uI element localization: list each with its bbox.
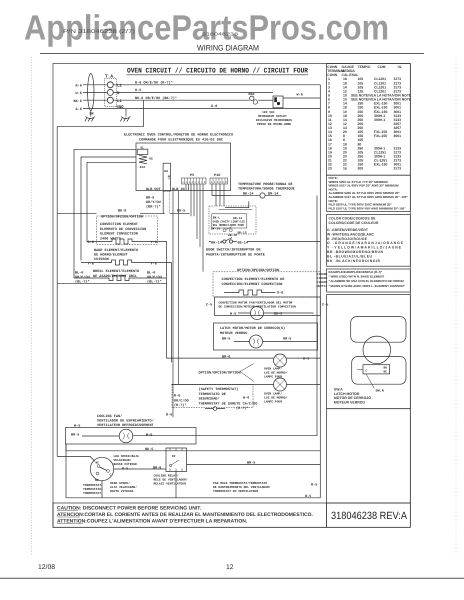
door switch lever [225, 238, 232, 241]
svg-text:ATTENTION:COUPEZ L'ALIMENTATIO: ATTENTION:COUPEZ L'ALIMENTATION AVANT D'… [57, 519, 248, 525]
connector P5 [182, 178, 207, 184]
svg-text:OVEN CAVITY LIGHT/LUZ: OVEN CAVITY LIGHT/LUZ [213, 219, 245, 223]
wire BK-5 run [66, 444, 320, 451]
relay pins [170, 448, 182, 472]
temp probe wire [225, 196, 281, 208]
svg-text:NC: NC [384, 370, 388, 373]
svg-text:ELEMENT CONVECTION: ELEMENT CONVECTION [100, 232, 138, 237]
door switch contacts [223, 240, 226, 243]
svg-text:158150FXL-1503001: 158150FXL-1503001 [328, 134, 401, 138]
svg-text:EXAMPLE/EJEMPLO/EXEMPLE (R-7)*: EXAMPLE/EJEMPLO/EXEMPLE (R-7)* [329, 270, 384, 274]
svg-text:(SAFETY THERMOSTAT): (SAFETY THERMOSTAT) [199, 387, 239, 392]
supply cable ellipse [88, 74, 94, 111]
footer rule [0, 577, 464, 579]
bottom bus wire [66, 472, 320, 498]
svg-text:DOOR SWITCH/INTERRUPTOR DE: DOOR SWITCH/INTERRUPTOR DE [206, 248, 261, 253]
chassis ground right [120, 117, 130, 122]
spare box [327, 409, 411, 503]
wire N feed [83, 91, 107, 93]
svg-text:MOTEUR VERROU: MOTEUR VERROU [334, 400, 366, 404]
svg-text:FAN HOLD THERMOSTAT/TERMOSTATO: FAN HOLD THERMOSTAT/TERMOSTATO [213, 481, 267, 485]
svg-text:BR-6: BR-6 [222, 355, 230, 360]
outlet contact dot [277, 102, 280, 105]
terminal L1 [107, 97, 113, 103]
latch motor M2 [250, 335, 263, 348]
color code text [327, 217, 404, 263]
svg-text:LUZ DE HORNO/: LUZ DE HORNO/ [264, 371, 288, 375]
svg-text:BK-8: BK-8 [118, 209, 126, 214]
element EL box [137, 149, 148, 154]
svg-text:KE: KE [149, 157, 153, 160]
svg-text:ELEMENTO DE CONVECCION: ELEMENTO DE CONVECCION [100, 227, 146, 232]
svg-text:1810250300H-13133: 1810250300H-13133 [328, 146, 401, 150]
svg-text:O-6: O-6 [277, 291, 283, 296]
svg-text:W-5: W-5 [146, 433, 152, 438]
svg-text:Y-6: Y-6 [151, 240, 157, 245]
svg-text:CUISSON: CUISSON [94, 257, 109, 262]
wire bus to thermostat [57, 456, 94, 461]
svg-text:ELECTRONIC OVEN CONTROL/MONITO: ELECTRONIC OVEN CONTROL/MONITOR DE HORNO… [124, 133, 233, 138]
svg-text:1420105FXL-1503001: 1420105FXL-1503001 [328, 130, 401, 134]
svg-text:P/N 318046238 (2/7): P/N 318046238 (2/7) [63, 29, 135, 35]
svg-text:COLORS/CODE DE COULEUR: COLORS/CODE DE COULEUR [329, 221, 380, 225]
switch feed line [357, 368, 363, 370]
svg-text:1114250300H-13133: 1114250300H-13133 [328, 118, 401, 122]
caution box [53, 503, 327, 527]
svg-text:BASSE VITESSE: BASSE VITESSE [114, 463, 138, 466]
terminal L2 [107, 82, 113, 88]
oven circuit title underline [127, 74, 308, 76]
svg-text:318046238 REV:A: 318046238 REV:A [331, 510, 407, 522]
svg-text:OR/E/OU: OR/E/OU [75, 275, 90, 280]
svg-text:BK: BK [90, 112, 95, 117]
convection fan heater [224, 290, 276, 295]
cooling fan motor M3 [119, 429, 133, 443]
wire KA down [162, 191, 164, 213]
cooling relay box KC [166, 448, 187, 472]
svg-text:BK-5: BK-5 [274, 312, 282, 317]
svg-text:* MAINS UTILISE AVEC VERS L. E: * MAINS UTILISE AVEC VERS L. ELEMENT CUI… [329, 284, 406, 288]
svg-text:318046238: 318046238 [202, 32, 239, 37]
svg-text:W-6: W-6 [76, 91, 82, 96]
svg-text:DE HORNO/ELEMENT: DE HORNO/ELEMENT [94, 252, 128, 257]
conv motor wires [238, 312, 314, 314]
svg-text:THERMOSTAT DE SURETE CA/C/OO: THERMOSTAT DE SURETE CA/C/OO [199, 401, 258, 406]
svg-text:WATTS*: WATTS* [317, 284, 328, 288]
svg-text:BR-6: BR-6 [153, 466, 161, 471]
element return bus [157, 242, 171, 363]
svg-text:PRISE DE MICRO-ONDE: PRISE DE MICRO-ONDE [257, 123, 291, 126]
latch motor detail box [327, 295, 411, 409]
convection element option dashed box [97, 216, 158, 245]
svg-text:714150EXL-1503001: 714150EXL-1503001 [328, 102, 401, 106]
svg-text:WIRING DIAGRAM: WIRING DIAGRAM [197, 44, 259, 53]
svg-text:R-6: R-6 [174, 394, 180, 399]
svg-text:BL -BLUE/AZUL/BLEU: BL -BLUE/AZUL/BLEU [327, 254, 373, 258]
svg-text:(BR-7)*: (BR-7)* [146, 205, 161, 210]
svg-text:BK-14: BK-14 [211, 228, 220, 231]
svg-text:BR -BROWN/MORENO/BRUN: BR -BROWN/MORENO/BRUN [327, 250, 384, 254]
thermostat circle Q1 [90, 457, 113, 480]
svg-text:VENTILADOR DE ENFRIAMIENTO/: VENTILADOR DE ENFRIAMIENTO/ [97, 419, 154, 424]
wire BK-8 branch from L1 [57, 100, 143, 213]
svg-text:KA: KA [164, 170, 168, 173]
svg-text:BR-5: BR-5 [71, 433, 79, 438]
svg-text:BAKE ELEMENT/ELEMENTO: BAKE ELEMENT/ELEMENTO [94, 248, 138, 253]
svg-text:R-6: R-6 [76, 83, 82, 88]
lamp wire top [167, 357, 321, 359]
svg-text:2020250300H-13133: 2020250300H-13133 [328, 155, 401, 159]
convection fan option dashed box [213, 272, 320, 297]
svg-text:BK-14: BK-14 [243, 192, 254, 197]
wire R-6 run [113, 84, 320, 86]
convection element heater [97, 239, 158, 244]
svg-text:DE MANTENIMIENTO DEL VENTILADO: DE MANTENIMIENTO DEL VENTILADOR/ [213, 485, 271, 489]
latch cam lower [352, 357, 406, 385]
thermostat lever [100, 467, 108, 471]
svg-text:C: C [110, 474, 112, 477]
svg-text:LOW SPEED/BAJA: LOW SPEED/BAJA [114, 454, 139, 458]
svg-text:OPTION/OPCION/OPTION: OPTION/OPCION/OPTION [237, 268, 279, 273]
svg-text:LATCH MOTOR/MOTOR DE CERROJO(S: LATCH MOTOR/MOTOR DE CERROJO(S) [220, 326, 285, 331]
EOC control box U1 [136, 143, 231, 191]
svg-text:(R-7)*: (R-7)* [236, 406, 249, 411]
svg-text:R-5: R-5 [311, 483, 317, 488]
safety thermostat symbol [205, 408, 225, 410]
svg-text:EXCLUSIVO MICROONDAS: EXCLUSIVO MICROONDAS [256, 119, 292, 122]
svg-text:OPTION/OPCION/OPTION: OPTION/OPCION/OPTION [199, 371, 241, 376]
notes text [329, 176, 409, 210]
wire BK-8 to elements [57, 212, 189, 214]
svg-text:BK-5: BK-5 [145, 447, 153, 452]
page right faint border [455, 57, 457, 555]
oven light outer dashed box [209, 206, 256, 234]
cooling fan box [66, 428, 197, 445]
svg-text:BR-6: BR-6 [146, 196, 154, 201]
EOC left wire 1 [74, 149, 136, 278]
svg-text:TERMOSTATO DE: TERMOSTATO DE [199, 392, 226, 397]
svg-text:OVEN CIRCUIT // CIRCUITO DE HO: OVEN CIRCUIT // CIRCUITO DE HORNO // CIR… [127, 66, 309, 75]
svg-text:R-6 OR/E/OU (R-7)*: R-6 OR/E/OU (R-7)* [135, 80, 173, 85]
svg-text:OVEN LAMP/: OVEN LAMP/ [264, 367, 282, 371]
door switch wire [209, 241, 320, 243]
lamp2 wires [171, 384, 320, 386]
svg-text:WIRES 5107 UL 600V FEP 20" AWG: WIRES 5107 UL 600V FEP 20" AWG 20" MINIM… [329, 184, 399, 188]
latch cam upper [351, 317, 406, 343]
svg-text:Y-6: Y-6 [88, 262, 94, 267]
svg-text:OVEN LAMP/: OVEN LAMP/ [264, 392, 282, 396]
temp probe sensor [260, 193, 265, 198]
relay KA box [163, 163, 170, 191]
P5 harness wires down [186, 184, 203, 272]
svg-text:ALAMBRE 5107 UL STYLE 600V AWG: ALAMBRE 5107 UL STYLE 600V AWG MINIMO 20… [329, 195, 409, 199]
broil element heater [74, 276, 157, 281]
svg-text:COMMANDE FOUR ELECTRONIQUE ES: COMMANDE FOUR ELECTRONIQUE ES 410/02 DOC [139, 138, 223, 143]
svg-text:13142503257: 13142503257 [328, 126, 401, 130]
header rule [40, 53, 424, 55]
wire light feed [219, 209, 253, 211]
relay KA arrow [168, 175, 170, 179]
svg-text:PUERTA/INTERRUPTEUR DE PORTE: PUERTA/INTERRUPTEUR DE PORTE [206, 252, 265, 257]
svg-text:MICROWAVE OUTLET: MICROWAVE OUTLET [258, 115, 287, 118]
caution text [57, 506, 314, 525]
svg-text:SEGURIDAD/: SEGURIDAD/ [199, 397, 220, 402]
svg-text:BK-15: BK-15 [238, 232, 247, 235]
svg-text:TERMOSTATO/: TERMOSTATO/ [83, 487, 103, 491]
svg-text:L2: L2 [117, 84, 122, 89]
svg-text:G -GREEN/VERDE/VERT: G -GREEN/VERDE/VERT [327, 228, 369, 232]
svg-text:118105CL12013173: 118105CL12013173 [328, 77, 401, 81]
svg-text:W -WHITE/BLANCO(BLANC: W -WHITE/BLANCO(BLANC [327, 232, 375, 236]
svg-text:BK-L: BK-L [213, 217, 220, 220]
svg-text:BK-6 OR/E/OU (BK-7)*: BK-6 OR/E/OU (BK-7)* [135, 96, 177, 101]
svg-text:DLB OUT: DLB OUT [146, 187, 161, 192]
svg-text:K1A: K1A [140, 166, 146, 169]
svg-text:2400 WATTS: 2400 WATTS [100, 236, 121, 241]
svg-text:BROIL ELEMENT/ELEMENTO: BROIL ELEMENT/ELEMENTO [93, 269, 139, 274]
wire GND feed [83, 108, 320, 110]
svg-text:CONVECCION/ELEMENT CONVECTION: CONVECCION/ELEMENT CONVECTION [222, 282, 283, 287]
svg-text:P5: P5 [190, 173, 194, 178]
svg-text:G-6: G-6 [211, 104, 217, 109]
svg-text:C1300X: C1300X [317, 281, 328, 284]
svg-text:CONVECTION ELEMENT: CONVECTION ELEMENT [100, 222, 138, 227]
svg-text:FILS 5107 UL TYPE 600V FEP AWG: FILS 5107 UL TYPE 600V FEP AWG MINIMUM 2… [329, 206, 407, 210]
svg-text:23162003173: 23162003173 [328, 167, 401, 171]
wire outlet to bus W-6 [283, 97, 320, 99]
svg-text:LAMPE FOUR: LAMPE FOUR [264, 401, 282, 404]
safety option dashed box [172, 384, 253, 407]
svg-text:BL-6: BL-6 [147, 271, 155, 276]
svg-text:N: N [117, 91, 120, 96]
svg-text:R-6: R-6 [166, 413, 172, 418]
svg-text:C: C [366, 369, 368, 372]
wire L1 run [113, 99, 249, 101]
svg-text:VELOCIDAD/: VELOCIDAD/ [114, 458, 132, 462]
wire L1 to outlet [258, 99, 273, 101]
option pointer lines [240, 364, 254, 382]
svg-text:MOTEUR VERROU: MOTEUR VERROU [220, 331, 247, 336]
terminal N [107, 89, 113, 95]
svg-text:COOLING FAN/: COOLING FAN/ [97, 414, 122, 419]
svg-text:DEL HORNO/LAMPE FOUR: DEL HORNO/LAMPE FOUR [213, 223, 244, 227]
convection motor M1 [251, 307, 264, 320]
svg-text:C-5: C-5 [206, 303, 212, 308]
wire BR-5 relay to bus [187, 464, 321, 466]
svg-text:12122003257: 12122003257 [328, 122, 401, 126]
svg-text:CONVECTION ELEMENT/ELEMENTO DE: CONVECTION ELEMENT/ELEMENTO DE [222, 277, 285, 282]
svg-text:(BL-7)*: (BL-7)* [75, 280, 90, 285]
svg-text:W-6: W-6 [297, 93, 303, 98]
bake element heater [81, 260, 157, 265]
svg-text:BK-6: BK-6 [74, 99, 82, 104]
svg-text:KC: KC [172, 455, 176, 458]
oven light switch [223, 229, 226, 232]
svg-text:C-5: C-5 [322, 303, 328, 308]
EOC left wire 3 [87, 162, 136, 241]
svg-text:CAUTION: DISCONNECT POWER BEFO: CAUTION: DISCONNECT POWER BEFORE SERVICI… [57, 506, 202, 512]
svg-text:SW.A: SW.A [376, 389, 385, 394]
svg-text:HIGH SPEED/: HIGH SPEED/ [110, 481, 130, 485]
svg-text:C1300U: C1300U [317, 277, 328, 280]
relay contact [171, 460, 179, 465]
convection motor box [215, 297, 321, 316]
svg-text:OR/E/OU: OR/E/OU [147, 275, 162, 280]
svg-text:Y-6: Y-6 [151, 262, 157, 267]
svg-text:ATENCION:CORTAR EL CORIENTE AN: ATENCION:CORTAR EL CORIENTE ANTES DE REA… [57, 512, 314, 518]
wire L1 feed [83, 99, 107, 101]
svg-text:OR-5: OR-5 [283, 337, 291, 342]
svg-text:L1: L1 [117, 99, 122, 104]
svg-text:THERMOSTAT DU VENTILATEUR: THERMOSTAT DU VENTILATEUR [213, 490, 258, 493]
wire N run [113, 91, 273, 93]
svg-text:BE-14: BE-14 [238, 240, 249, 245]
svg-text:RELE DE VENTILADOR/: RELE DE VENTILADOR/ [154, 478, 188, 482]
svg-text:2122105CL-12513173: 2122105CL-12513173 [328, 159, 401, 163]
svg-text:W-6: W-6 [243, 396, 249, 401]
notes box [327, 175, 411, 211]
switch leader line [366, 374, 374, 388]
svg-text:818150EXL-1503001: 818150EXL-1503001 [328, 106, 401, 110]
svg-text:12: 12 [226, 564, 234, 571]
svg-text:C1300E: C1300E [317, 273, 328, 276]
microwave outlet box [273, 96, 283, 108]
latch cam wheel [363, 336, 391, 364]
svg-text:BR-5: BR-5 [222, 337, 230, 342]
dotted wire DLB [169, 191, 171, 214]
svg-text:BR-14: BR-14 [268, 192, 279, 197]
svg-text:O -ORANGE/NARANJA/ORANGE: O -ORANGE/NARANJA/ORANGE [327, 241, 404, 245]
svg-text:123456: 123456 [211, 181, 228, 184]
latch motor wires [234, 341, 317, 343]
main frame [53, 64, 410, 528]
svg-text:TEMPERATURE PROBE/SONDA DE: TEMPERATURE PROBE/SONDA DE [238, 182, 293, 187]
svg-text:P10: P10 [214, 173, 220, 178]
svg-text:314105CL12013173: 314105CL12013173 [328, 85, 401, 89]
svg-text:AppliancePartsPros.com: AppliancePartsPros.com [24, 9, 389, 48]
svg-text:G-6: G-6 [76, 107, 82, 112]
ground stem BK [90, 111, 92, 117]
svg-text:R -RED/ROJO/ROUGE: R -RED/ROJO/ROUGE [327, 237, 368, 241]
svg-text:RELAIS VENTILATEUR: RELAIS VENTILATEUR [154, 483, 187, 486]
svg-text:GND: GND [117, 105, 125, 110]
P10 harness wires down [212, 184, 231, 206]
svg-text:W-5: W-5 [135, 88, 141, 93]
latch motor box [214, 323, 318, 350]
svg-text:COLOR CODE/CODIGOS DE: COLOR CODE/CODIGOS DE [329, 217, 377, 221]
svg-text:W-5: W-5 [230, 312, 236, 317]
ground stem GND [125, 109, 127, 117]
svg-text:BR-5: BR-5 [247, 460, 255, 465]
svg-text:O-6: O-6 [88, 240, 94, 245]
breaker 30A symbol [250, 96, 254, 100]
svg-text:BL-6: BL-6 [75, 271, 83, 276]
svg-text:OR/Y/OU: OR/Y/OU [146, 200, 161, 205]
svg-text:OR/C/OO: OR/C/OO [174, 398, 189, 403]
svg-text:(BL-7)*: (BL-7)* [147, 280, 162, 285]
outlet contact pin [274, 97, 277, 102]
svg-text:218105CL12013173: 218105CL12013173 [328, 81, 401, 85]
svg-text:* ALAMBRE SE USA CON EL ELEMEN: * ALAMBRE SE USA CON EL ELEMENTO DE HORN… [329, 279, 405, 283]
latch caption [334, 388, 371, 405]
thermostat contacts [97, 465, 100, 468]
connector P10 [210, 178, 228, 184]
wire L2 feed [83, 84, 107, 86]
svg-text:THERMOSTAT/: THERMOSTAT/ [83, 483, 103, 487]
left bus down [57, 213, 167, 456]
terminal block dashed box [105, 79, 117, 107]
svg-text:TEMPERATURA/SONDE THERMIQUE: TEMPERATURA/SONDE THERMIQUE [238, 187, 295, 192]
oven lamp 1 [274, 354, 287, 367]
fan motor wires [82, 196, 317, 437]
oven lamp 2 [274, 378, 287, 391]
svg-text:ALTA VELOCIDAD/: ALTA VELOCIDAD/ [110, 485, 137, 489]
svg-text:(R-7)*: (R-7)* [174, 403, 187, 408]
part number box [327, 503, 411, 527]
svg-text:1920105CL12513173: 1920105CL12513173 [328, 151, 401, 155]
svg-text:W-5: W-5 [303, 357, 309, 362]
svg-text:CONVECTION MOTOR FAN/VENTILADO: CONVECTION MOTOR FAN/VENTILADOR DEL MOTO… [219, 301, 293, 305]
svg-text:LUZ DE HORNO/: LUZ DE HORNO/ [264, 396, 288, 400]
EOC DLB wires down [173, 191, 178, 418]
latch switch SW.A [363, 365, 390, 374]
svg-text:* WIRE USED WITH R. BAKE ELEME: * WIRE USED WITH R. BAKE ELEMENT [329, 275, 385, 279]
wire table box [327, 64, 411, 176]
svg-text:NC: NC [96, 462, 100, 465]
svg-text:Y -YELLOW/AMARILLO/JAUNE: Y -YELLOW/AMARILLO/JAUNE [327, 246, 402, 250]
svg-text:2222150EXL-1503001: 2222150EXL-1503001 [328, 163, 401, 167]
svg-text:HAUTE VITESSE: HAUTE VITESSE [110, 490, 134, 493]
page left dashed border [30, 57, 32, 555]
svg-text:NO: NO [384, 366, 388, 369]
svg-text:BK-14: BK-14 [211, 240, 222, 245]
right bus main [319, 85, 321, 498]
svg-text:THERMOSTAT: THERMOSTAT [83, 492, 101, 495]
wire table header [327, 65, 412, 171]
svg-text:COOLING RELAY/: COOLING RELAY/ [154, 474, 179, 478]
svg-text:12/08: 12/08 [38, 564, 55, 571]
heater element KE [139, 155, 147, 163]
svg-text:W-5: W-5 [305, 494, 311, 499]
caution underlines [57, 511, 83, 524]
svg-text:910150EXL-1503001: 910150EXL-1503001 [328, 110, 401, 114]
svg-text:120 VAC: 120 VAC [262, 111, 275, 114]
svg-text:BK -BLACK/NEGRO/NOIR: BK -BLACK/NEGRO/NOIR [327, 259, 381, 263]
svg-text:NO: NO [95, 479, 99, 482]
EOC left wire 2 [81, 157, 136, 261]
svg-text:AB-1R: AB-1R [228, 234, 237, 237]
color code box [327, 215, 411, 267]
chassis ground left [85, 117, 95, 122]
example text [329, 270, 406, 288]
svg-text:OPTION/OPCION/OPTION: OPTION/OPCION/OPTION [101, 215, 143, 220]
oven light inner box [212, 214, 247, 228]
example box [327, 269, 411, 292]
thermostat feed wires [66, 444, 166, 498]
svg-text:1018200300H-13133: 1018200300H-13133 [328, 114, 401, 118]
